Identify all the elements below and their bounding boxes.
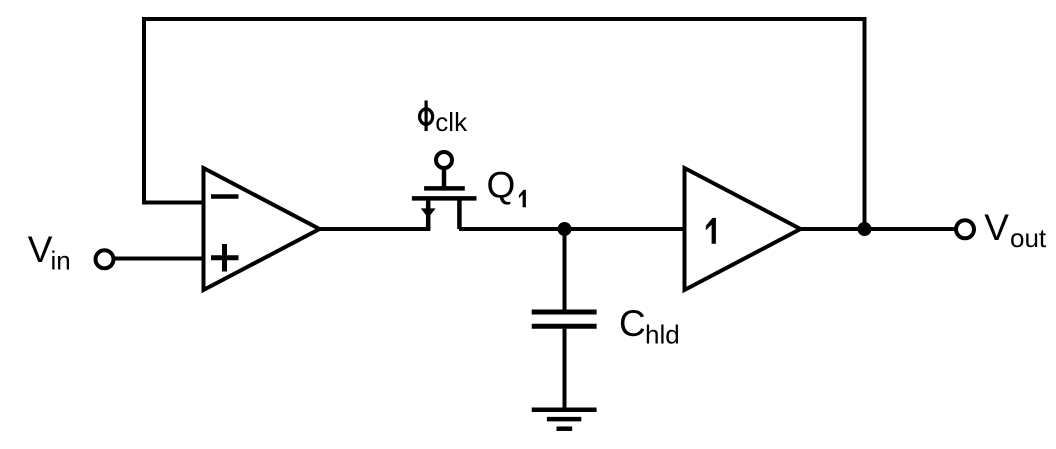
op-amp U1 [204, 168, 320, 290]
svg-text:C: C [619, 303, 646, 344]
svg-text:Q: Q [487, 165, 516, 206]
wire Chld bottom to ground [563, 329, 567, 410]
svg-text:V: V [984, 207, 1009, 248]
terminal Vout [956, 220, 974, 238]
transistor Q1 [412, 152, 477, 229]
wire feedback from output node to inverting input [144, 19, 865, 229]
Q1 gate stem [442, 168, 447, 188]
wire Vin to op-amp noninverting input [113, 257, 204, 261]
op-amp plus sign [211, 244, 239, 272]
svg-text:in: in [51, 246, 71, 276]
Q1 channel bar [412, 196, 477, 201]
Q1 source lead [426, 198, 431, 229]
Q1 drain lead [457, 198, 462, 229]
capacitor Chld [532, 312, 597, 326]
wire Q1 drain to buffer input [459, 227, 685, 231]
svg-text:clk: clk [435, 107, 468, 137]
Q1 gate bar [424, 186, 465, 191]
label buffer gain 1 [706, 218, 716, 244]
wire hold node down to Chld [563, 229, 567, 310]
Q1 source arrow [421, 208, 436, 218]
ground [532, 410, 597, 429]
svg-text:hld: hld [645, 320, 680, 350]
node hold-node junction dot [558, 222, 572, 236]
label phi_clk [420, 101, 468, 138]
Q1 gate terminal circle [436, 152, 452, 168]
node output junction dot [858, 222, 872, 236]
wire buffer output to Vout [801, 227, 957, 231]
op-amp minus sign [211, 194, 239, 199]
wire op-amp output to Q1 source [320, 227, 431, 231]
svg-text:V: V [28, 229, 53, 270]
buffer amplifier gain-1 [685, 168, 801, 290]
terminal Vin [96, 250, 114, 268]
svg-text:out: out [1010, 223, 1047, 253]
